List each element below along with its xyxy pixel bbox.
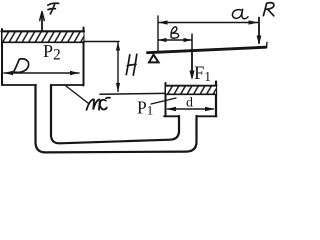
b dimension arrow: [158, 38, 192, 42]
U-tube outer wall: [36, 85, 197, 152]
H bottom reference line: [100, 92, 164, 95]
label b (handwritten): [171, 27, 179, 38]
a dimension: left extension tick: [157, 16, 159, 51]
piston P1 hatched: [166, 86, 217, 95]
label D (handwritten): [13, 59, 28, 73]
a dimension arrow: [158, 20, 258, 24]
small cylinder right wall: [215, 82, 217, 117]
P1 leader line: [151, 98, 176, 104]
label a (handwritten): [232, 9, 248, 18]
big cylinder right wall: [83, 28, 85, 86]
label F (handwritten): [48, 3, 59, 14]
big cylinder bottom right segment: [51, 84, 84, 86]
H top reference line: [84, 41, 120, 43]
lever right end tick: [265, 43, 268, 48]
big cylinder bottom left segment: [2, 84, 36, 86]
D dimension arrow: [4, 71, 79, 75]
zh leader line: [66, 86, 88, 103]
force R arrow: [257, 18, 262, 46]
label zh fluid (handwritten cursive): [87, 98, 111, 110]
big cylinder left wall: [1, 29, 3, 85]
piston P2 hatched: [2, 31, 85, 42]
force F arrow: [40, 12, 45, 32]
label R (handwritten): [263, 3, 274, 16]
H dimension arrow: [116, 42, 120, 92]
fulcrum triangle: [149, 55, 159, 63]
force F1 arrow: [189, 50, 194, 80]
small cylinder bottom left segment: [164, 115, 179, 117]
small cylinder left wall: [165, 83, 167, 116]
b dimension: right extension tick: [191, 34, 193, 50]
U-tube inner wall: [51, 85, 179, 143]
label H (handwritten): [126, 54, 137, 75]
svg-text:d: d: [186, 96, 193, 111]
small cylinder bottom right segment: [197, 115, 217, 117]
d dimension arrow: [167, 107, 215, 111]
lever bar: [148, 47, 267, 53]
